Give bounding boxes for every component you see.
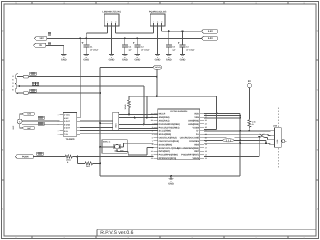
wire 5V down [248,88,250,120]
wire D+ alt y156.5 [204,156,259,158]
svg-text:17: 17 [205,147,207,150]
svg-text:1: 1 [255,1,256,4]
title block [97,228,316,230]
component SW1 box [113,112,119,130]
ferrite oval on GND wire [223,139,234,142]
svg-text:<: < [58,134,59,136]
wire row129.4 to x214.9 [204,128,216,130]
node 0V input flag [34,43,47,47]
wire amp row6 to mcu [80,130,158,132]
svg-text:GND: GND [61,59,67,62]
connector CN1 servo [15,74,18,94]
wire jack to amp row4 [22,123,59,125]
wire row B drop x143.8 [143,86,145,124]
svg-text:SDA1(RB9): SDA1(RB9) [159,133,172,136]
wire D- y134.2 [204,133,259,135]
svg-text:0V: 0V [39,44,42,47]
wire swbox left to x100.1 [100,122,113,124]
svg-text:23: 23 [205,119,207,122]
wire x240.1 vertical [239,113,241,176]
svg-text:3: 3 [127,1,128,4]
svg-text:28: 28 [151,119,153,122]
svg-text:6: 6 [152,136,153,139]
wire jack top to flag [19,114,21,119]
node 12V input flag [35,36,48,40]
svg-text:VDD: VDD [194,113,199,116]
svg-text:AN1(RA1): AN1(RA1) [159,119,170,122]
wire resonator bottom to OSC2 [116,149,118,151]
wire y96.2 [129,95,217,97]
svg-text:PGD3/RP7(RB7): PGD3/RP7(RB7) [181,154,199,157]
svg-text:INT0(RB7): INT0(RB7) [159,150,170,153]
net flag MCLR [153,66,162,69]
svg-text:<: < [58,131,59,133]
svg-text:27: 27 [205,116,207,119]
wire push junction [72,156,153,158]
svg-text:RB7: RB7 [194,150,199,153]
svg-text:USB: USB [273,124,278,127]
svg-text:11: 11 [151,153,153,156]
frame zone ticks left [2,59,5,61]
svg-text:1: 1 [152,123,153,126]
svg-text:GND: GND [166,59,172,62]
svg-text:TA48MD: TA48MD [65,138,74,141]
resonator X1 8MHz [102,140,127,154]
capacitor C3 [182,31,184,45]
wire VDD y113.4 [204,112,240,114]
wire reg2 pin3 to 3.3V [161,26,163,31]
svg-text:1 VCC: 1 VCC [64,114,70,117]
resistor R2 10k [65,155,72,158]
frame zone ticks top [31,2,33,5]
wire amp out to switch box [80,120,113,122]
wire reg1 pin3 [115,26,117,33]
svg-text:10kΩ: 10kΩ [66,159,71,162]
ground main bus [170,176,172,179]
svg-text:GND: GND [168,183,174,186]
svg-text:PGC1/U2TXD(RB1): PGC1/U2TXD(RB1) [159,126,180,129]
amp left pin stubs [60,114,64,116]
wire to usb D- [265,133,269,135]
wire 12V into amp [77,117,80,119]
svg-text:24: 24 [205,123,207,126]
svg-text:8MHz-C: 8MHz-C [103,140,111,143]
svg-text:10: 10 [151,150,153,153]
wire x146.8 drop [146,96,148,117]
resistor R3 1k [85,162,93,165]
wire x216.6 vertical [216,96,218,129]
svg-text:PGD1/U2RXD(RB0): PGD1/U2RXD(RB0) [159,123,180,126]
net oval row A [23,75,28,78]
svg-text:2: 2 [191,1,192,4]
wire 0V to ground [46,44,64,46]
wire row C [29,92,101,94]
net oval row C [23,92,28,95]
svg-text:GND: GND [155,59,161,62]
svg-text:5: 5 [15,236,16,239]
svg-text:OSCO/CLKO(RA3): OSCO/CLKO(RA3) [159,140,180,143]
svg-text:12: 12 [151,157,153,160]
wire R3 to x100.1 [93,162,101,164]
svg-text:5: 5 [15,1,16,4]
svg-text:MIC: MIC [12,125,15,129]
op-amp U4 TA48MD audio amp [63,113,77,137]
frame zone ticks bottom [31,236,33,239]
svg-text:GND: GND [180,59,186,62]
svg-text:VBUS: VBUS [193,157,200,160]
wire jack bottom to flag [19,124,21,128]
wire vertical x100.1 [99,67,101,176]
dashed shield line top [277,108,279,128]
svg-text:AN4(RB2): AN4(RB2) [188,119,199,122]
usb pin stubs [270,130,274,132]
svg-text:8: 8 [152,143,153,146]
usb shield circle [282,140,285,143]
svg-text:5.0V: 5.0V [208,37,213,40]
wire row C stub [17,92,23,94]
wire row A [29,76,157,78]
wire gnd1 y140.4 [204,139,266,141]
svg-text:10kΩ: 10kΩ [124,104,127,109]
wire resonator left [100,146,114,148]
wire gnd bus [100,175,240,177]
svg-text:PUSH: PUSH [22,155,29,158]
wire VBUS y130.8 [204,130,270,132]
svg-text:AN0(RA0): AN0(RA0) [159,116,170,119]
svg-text:5VB: 5VB [27,113,31,116]
svg-text:26: 26 [151,112,153,115]
svg-text:10~100µF: 10~100µF [141,49,150,52]
svg-text:1kΩ: 1kΩ [86,165,90,168]
svg-text:4 NC: 4 NC [64,117,69,120]
svg-text:1: 1 [303,236,304,239]
svg-text:3.3V: 3.3V [208,30,213,33]
IC U1 PIC24FJ64GB004 [158,109,200,160]
svg-text:6 GND: 6 GND [64,123,71,126]
wire 12V rail y38.3 [47,37,202,39]
wire MCLR horizontal [100,66,153,68]
svg-text:PGC3/RP24(RB9): PGC3/RP24(RB9) [159,154,178,157]
svg-text:VSS: VSS [194,116,199,119]
svg-text:RA4+USBOEN(RB4): RA4+USBOEN(RB4) [177,147,199,150]
wire amp out2 to switch box [80,126,113,128]
wires swbox right to mcu [119,113,158,115]
svg-text:SCL1(RB8): SCL1(RB8) [159,130,171,133]
svg-text:PQ3RD23(3.3V): PQ3RD23(3.3V) [149,11,167,14]
wire row B with arrow [17,85,20,87]
crossover D+/D- [260,134,265,137]
svg-text:25: 25 [205,126,207,129]
svg-text:5 IN: 5 IN [64,130,68,133]
node 5.0V flag [202,36,218,40]
connector CN2 USB [275,128,282,148]
svg-text:UACRU/DOCONE: UACRU/DOCONE [180,137,200,140]
svg-text:28: 28 [205,112,207,115]
svg-text:RB5: RB5 [194,143,199,146]
wire reg2 pin1 [153,26,155,33]
svg-text:MCLR: MCLR [155,66,161,69]
svg-text:12V: 12V [39,37,44,40]
resistor R4 1.5k [248,120,251,128]
wire jack to amp row3 [22,120,59,122]
svg-text:LM2940CT(5.0V): LM2940CT(5.0V) [102,11,121,14]
svg-text:3: 3 [127,236,128,239]
ground 0V [63,45,65,54]
wire VSS y115.6 [204,115,240,117]
regulator U2 LM2940(5.0V) [104,14,119,26]
net flag 5VB [22,113,34,116]
svg-text:GND: GND [122,59,128,62]
svg-text:2: 2 [191,236,192,239]
net flag MIC [22,127,34,130]
capacitor C5 [168,31,170,45]
svg-text:OSCI/CLKI(RA2): OSCI/CLKI(RA2) [159,137,177,140]
svg-text:9: 9 [152,147,153,150]
resistor R1 10k [128,96,130,100]
svg-text:RP25/SCK(RC9): RP25/SCK(RC9) [159,157,177,160]
svg-text:AN5(RB3): AN5(RB3) [188,123,199,126]
connector J2 mic jack [17,119,22,124]
svg-text:1: 1 [255,236,256,239]
wire to usb D+ [265,136,268,138]
svg-text:GND: GND [135,59,141,62]
svg-text:27: 27 [151,116,153,119]
wire reg1 pin1 [107,26,109,33]
svg-text:2 OUT: 2 OUT [64,127,71,130]
svg-text:D-: D- [197,130,200,133]
ground reg1 [111,26,113,55]
svg-text:DSVRES: DSVRES [189,140,199,143]
svg-text:MCLR: MCLR [159,113,166,116]
regulator U3 PQ3RD23(3.3V) [150,14,165,26]
svg-text:SOSCI(RB4): SOSCI(RB4) [159,143,173,146]
svg-text:10~100µF: 10~100µF [186,49,195,52]
svg-text:1: 1 [303,1,304,4]
frame zone ticks right [316,59,319,61]
capacitor C2 [136,38,138,45]
svg-text:13: 13 [205,157,207,160]
node 3.3V flag [202,29,218,33]
amp right pin stubs [77,117,80,119]
svg-text:5V: 5V [248,80,251,83]
wire row A stub [17,76,23,78]
capacitor C1 [85,38,87,45]
svg-text:14: 14 [205,153,207,156]
wire amp row7 to mcu [80,133,158,135]
wire y117.8 [204,117,240,119]
net flag PUSH [15,155,33,159]
wire push to R2 [34,156,66,158]
wire gnd2 y143.2 [204,142,269,144]
svg-text:GND: GND [109,59,115,62]
svg-text:3 OUT: 3 OUT [64,120,71,123]
dashed shield line bottom [277,148,279,168]
svg-text:PIC24FJ64GB004: PIC24FJ64GB004 [170,110,188,113]
svg-text:3: 3 [152,130,153,133]
wire 12V vertical drop x80.2 [79,37,81,39]
svg-text:7: 7 [152,140,153,143]
svg-text:2: 2 [152,126,153,129]
wire resonator right to OSC1 [120,146,123,148]
wire branch down to R3 [76,157,78,164]
ground reg2 [157,26,159,55]
svg-text:15: 15 [205,150,207,153]
capacitor marks under resonator [115,149,119,151]
svg-text:R.P.V.S ver.0.6: R.P.V.S ver.0.6 [100,230,133,236]
svg-text:GND: GND [83,59,89,62]
svg-text:4: 4 [152,133,153,136]
node 5V circle [247,83,251,87]
svg-text:<: < [58,114,59,116]
svg-text:7 IN: 7 IN [64,133,68,136]
capacitor C4 [124,38,126,45]
svg-text:10~100µF: 10~100µF [90,49,99,52]
svg-text:VUSB: VUSB [193,126,200,129]
wire MCLR drop to y96 line [156,69,158,96]
wire D+ y137.2 [204,136,226,138]
